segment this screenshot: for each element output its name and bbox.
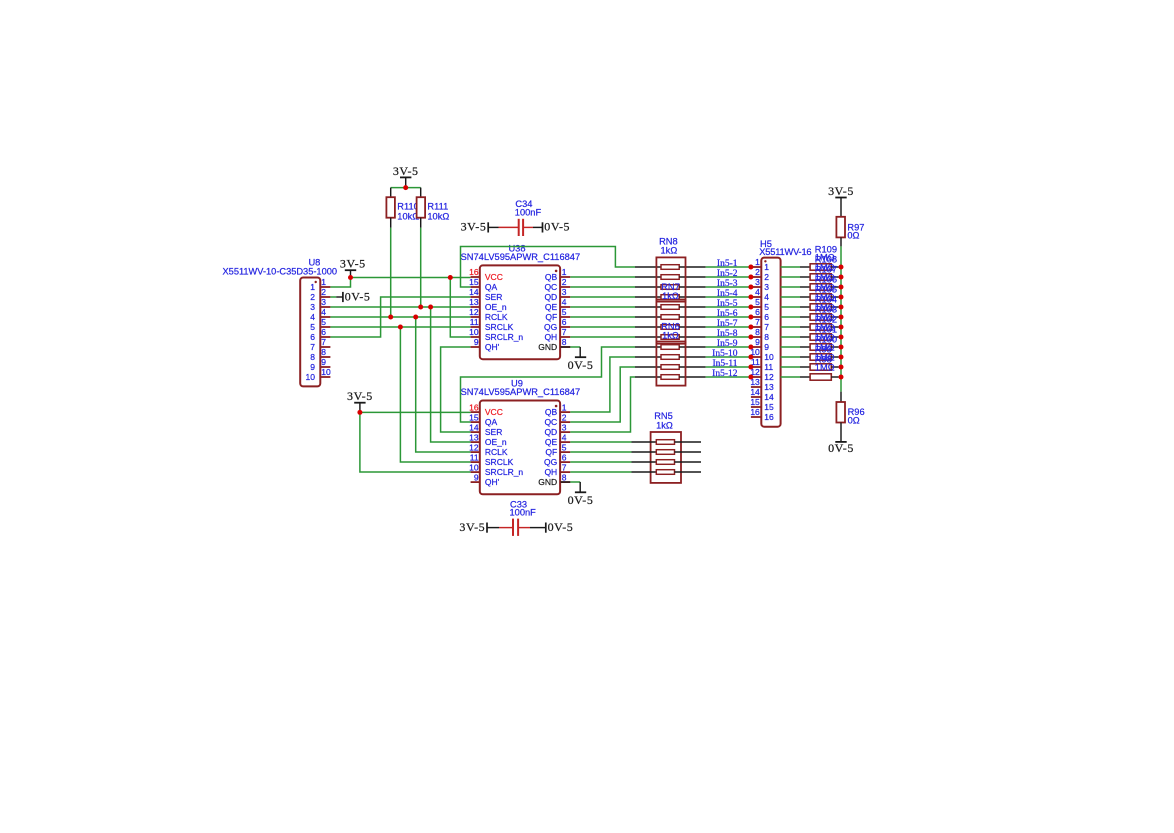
pin 3 QD: [544, 287, 570, 302]
svg-text:6: 6: [562, 317, 567, 327]
pin 12 RCLK: [469, 307, 508, 322]
svg-text:12: 12: [469, 442, 479, 452]
resistor R98 1MΩ: [781, 374, 839, 380]
resistor R105 1MΩ: [781, 304, 839, 310]
pin 3: [320, 306, 330, 308]
resistor R101 1MΩ: [781, 344, 839, 350]
svg-text:13: 13: [764, 382, 774, 392]
pin 7 QH: [544, 462, 570, 477]
wire: [706, 286, 751, 288]
power 0V-5 (right of C34): [543, 220, 571, 234]
svg-text:1kΩ: 1kΩ: [661, 246, 678, 256]
wire: [570, 316, 635, 318]
svg-text:9: 9: [474, 337, 479, 347]
svg-text:In5-11: In5-11: [713, 359, 738, 369]
svg-text:11: 11: [764, 362, 773, 372]
connector H5 X5511WV-16: [750, 239, 811, 427]
junction: [839, 315, 844, 320]
svg-text:9: 9: [764, 342, 769, 352]
svg-text:1: 1: [562, 267, 567, 277]
wire: [706, 316, 751, 318]
svg-text:SER: SER: [485, 292, 502, 302]
svg-text:0V-5: 0V-5: [568, 493, 594, 507]
svg-text:RN5: RN5: [654, 411, 673, 421]
pin 5 QF: [545, 307, 570, 322]
wire: [570, 336, 635, 338]
svg-text:OE_n: OE_n: [485, 437, 507, 447]
resistor network RN7 1kΩ: [656, 282, 685, 344]
wire: [416, 317, 471, 452]
resistor R110: [386, 188, 419, 228]
svg-text:1: 1: [321, 277, 326, 287]
resistor R108 1MΩ: [781, 274, 839, 280]
resistor network RN5 element 1: [632, 440, 702, 445]
pin 3 QD: [544, 422, 570, 437]
wire: [706, 336, 751, 338]
wire: [570, 377, 635, 432]
pin 10 SRCLR_n: [469, 462, 523, 477]
svg-text:QD: QD: [544, 292, 557, 302]
wire: [570, 367, 635, 422]
svg-text:0V-5: 0V-5: [345, 289, 371, 303]
pin 2: [320, 296, 330, 298]
resistor network element row 4: [635, 295, 706, 300]
wire: [570, 326, 635, 328]
svg-text:QF: QF: [545, 312, 557, 322]
svg-text:6: 6: [764, 312, 769, 322]
svg-text:14: 14: [469, 422, 479, 432]
wire: [330, 296, 336, 298]
svg-text:3: 3: [562, 287, 567, 297]
svg-text:16: 16: [469, 402, 479, 412]
svg-text:14: 14: [764, 392, 774, 402]
svg-text:13: 13: [469, 432, 479, 442]
pin 6: [751, 316, 761, 318]
pin 5: [320, 326, 330, 328]
resistor network element row 11: [635, 365, 706, 370]
svg-text:1kΩ: 1kΩ: [662, 291, 679, 301]
wire: [360, 411, 471, 413]
svg-text:3V-5: 3V-5: [459, 520, 485, 534]
svg-text:1: 1: [562, 402, 567, 412]
svg-text:2: 2: [562, 277, 567, 287]
resistor R100 1MΩ: [781, 354, 839, 360]
svg-text:12: 12: [764, 372, 774, 382]
svg-text:1: 1: [764, 262, 769, 272]
pin 10: [320, 376, 330, 378]
wire: [570, 346, 580, 348]
pin 8: [320, 356, 330, 358]
wire: [706, 356, 751, 358]
svg-text:7: 7: [755, 317, 760, 327]
svg-text:8: 8: [755, 327, 760, 337]
pin 9: [751, 346, 761, 348]
pin 13 OE_n: [469, 432, 507, 447]
svg-text:0Ω: 0Ω: [847, 230, 859, 240]
svg-text:5: 5: [562, 307, 567, 317]
resistor R102 1MΩ: [781, 334, 839, 340]
svg-text:0V-5: 0V-5: [548, 520, 574, 534]
svg-text:R111: R111: [427, 202, 448, 212]
wire: [570, 286, 635, 288]
pin 7: [751, 326, 761, 328]
pin 4: [320, 316, 330, 318]
junction: [839, 295, 844, 300]
wire: [570, 451, 631, 453]
junction: [748, 265, 753, 270]
junction: [413, 315, 418, 320]
svg-text:1kΩ: 1kΩ: [656, 421, 673, 431]
svg-text:QE: QE: [545, 302, 558, 312]
wire: [570, 296, 635, 298]
svg-text:QA: QA: [485, 282, 498, 292]
svg-text:6: 6: [755, 307, 760, 317]
svg-text:QH': QH': [485, 477, 500, 487]
svg-text:SRCLR_n: SRCLR_n: [485, 467, 524, 477]
svg-text:VCC: VCC: [485, 272, 503, 282]
power 3V-5 (above R97): [828, 184, 854, 198]
pin 15 QA: [469, 412, 497, 427]
wire: [461, 347, 636, 422]
svg-text:QF: QF: [545, 447, 557, 457]
wire: [570, 357, 635, 412]
resistor R109 1MΩ: [781, 264, 839, 270]
pin 1 QB: [545, 402, 570, 417]
svg-text:10: 10: [469, 327, 479, 337]
resistor network RN5 element 4: [632, 470, 702, 475]
wire: [530, 527, 546, 529]
svg-text:4: 4: [755, 287, 760, 297]
svg-text:5: 5: [562, 442, 567, 452]
svg-text:VCC: VCC: [485, 407, 503, 417]
pin 15 QA: [469, 277, 497, 292]
wire: [420, 228, 422, 307]
svg-text:In5-3: In5-3: [717, 279, 738, 289]
svg-text:5: 5: [764, 302, 769, 312]
wire: [431, 307, 471, 442]
pin 8 GND: [538, 337, 570, 352]
wire: [391, 187, 421, 189]
svg-text:7: 7: [562, 462, 567, 472]
pin 14 SER: [469, 287, 502, 302]
junction: [748, 285, 753, 290]
svg-text:3: 3: [562, 422, 567, 432]
svg-text:13: 13: [469, 297, 479, 307]
svg-text:4: 4: [764, 292, 769, 302]
wire: [533, 226, 543, 228]
pin 11 SRCLK: [470, 317, 514, 332]
junction: [839, 355, 844, 360]
svg-text:In5-4: In5-4: [717, 289, 738, 299]
junction: [839, 305, 844, 310]
IC U38 SN74LV595APWR_C116847: [461, 244, 581, 360]
svg-text:3V-5: 3V-5: [393, 164, 419, 178]
wire: [487, 527, 499, 529]
svg-text:8: 8: [562, 472, 567, 482]
svg-text:1: 1: [755, 257, 760, 267]
svg-text:QE: QE: [545, 437, 558, 447]
wire: [706, 326, 751, 328]
capacitor C34: [499, 199, 542, 236]
pin 5 QF: [545, 442, 570, 457]
wire: [561, 346, 571, 348]
junction: [748, 325, 753, 330]
svg-text:5: 5: [321, 317, 326, 327]
wire: [360, 412, 471, 472]
svg-text:In5-7: In5-7: [717, 319, 738, 329]
svg-text:9: 9: [755, 337, 760, 347]
junction: [748, 355, 753, 360]
svg-text:X5511WV-16: X5511WV-16: [759, 247, 811, 257]
svg-text:In5-6: In5-6: [717, 309, 738, 319]
svg-text:5: 5: [310, 322, 315, 332]
junction: [357, 410, 362, 415]
svg-text:2: 2: [321, 287, 326, 297]
pin 9 QH': [471, 472, 500, 487]
pin 12: [751, 376, 761, 378]
junction: [748, 375, 753, 380]
wire: [570, 461, 631, 463]
resistor network element row 12: [635, 375, 706, 380]
wire: [840, 246, 842, 391]
power 0V-5 (below U38 GND): [568, 347, 594, 372]
pin 4 QE: [545, 432, 570, 447]
junction: [839, 335, 844, 340]
power 3V-5 (top, above R110/R111): [393, 164, 419, 188]
svg-text:3V-5: 3V-5: [347, 389, 373, 403]
wire: [570, 276, 635, 278]
svg-text:11: 11: [470, 317, 479, 327]
resistor network element row 10: [635, 355, 706, 360]
pin 8: [751, 336, 761, 338]
pin 16 VCC: [469, 402, 503, 417]
resistor network element row 5: [635, 305, 706, 310]
svg-text:4: 4: [321, 307, 326, 317]
wire: [390, 228, 392, 317]
wire: [706, 276, 751, 278]
svg-text:GND: GND: [538, 477, 557, 487]
svg-text:X5511WV-10-C35D35-1000: X5511WV-10-C35D35-1000: [223, 267, 338, 277]
svg-text:SRCLK: SRCLK: [485, 322, 514, 332]
pin 6 QG: [544, 452, 570, 467]
svg-text:4: 4: [562, 297, 567, 307]
svg-text:3: 3: [764, 282, 769, 292]
wire: [570, 441, 631, 443]
power 0V-5 (right of C33): [546, 520, 574, 534]
svg-text:3: 3: [310, 302, 315, 312]
svg-text:In5-5: In5-5: [717, 299, 738, 309]
svg-text:QG: QG: [544, 322, 557, 332]
svg-text:RCLK: RCLK: [485, 312, 508, 322]
junction: [748, 365, 753, 370]
IC U9 SN74LV595APWR_C116847: [461, 379, 581, 495]
svg-text:6: 6: [321, 327, 326, 337]
svg-text:QG: QG: [544, 457, 557, 467]
svg-text:In5-2: In5-2: [717, 269, 738, 279]
svg-text:In5-9: In5-9: [717, 339, 738, 349]
junction: [839, 265, 844, 270]
svg-text:1: 1: [310, 282, 315, 292]
svg-text:16: 16: [750, 407, 760, 417]
svg-text:OE_n: OE_n: [485, 302, 507, 312]
wire: [706, 266, 751, 268]
svg-text:3: 3: [755, 277, 760, 287]
svg-text:In5-12: In5-12: [712, 369, 738, 379]
svg-text:R110: R110: [397, 202, 419, 212]
svg-text:10: 10: [764, 352, 774, 362]
svg-text:2: 2: [755, 267, 760, 277]
wire: [330, 326, 470, 328]
pin 7 QH: [544, 327, 570, 342]
resistor R106 1MΩ: [781, 294, 839, 300]
svg-text:2: 2: [764, 272, 769, 282]
svg-text:0V-5: 0V-5: [544, 220, 570, 234]
pin 8 GND: [538, 472, 570, 487]
svg-text:10: 10: [469, 462, 479, 472]
svg-text:In5-8: In5-8: [717, 329, 738, 339]
resistor network RN5 element 2: [632, 450, 702, 455]
power 3V-5 (left of C34): [461, 220, 489, 234]
svg-text:12: 12: [469, 307, 479, 317]
svg-text:RCLK: RCLK: [485, 447, 508, 457]
power 3V-5 (above U8 pin 1): [340, 257, 366, 278]
junction: [748, 345, 753, 350]
pin 9: [320, 366, 330, 368]
wire: [570, 471, 631, 473]
svg-text:10kΩ: 10kΩ: [427, 211, 449, 221]
resistor network element row 6: [635, 315, 706, 320]
pin 7: [320, 346, 330, 348]
junction: [418, 305, 423, 310]
svg-text:SRCLK: SRCLK: [485, 457, 514, 467]
junction: [398, 325, 403, 330]
resistor network element row 1: [635, 265, 706, 270]
power 3V-5 (left of C33): [459, 520, 487, 534]
svg-text:9: 9: [321, 357, 326, 367]
pin 15: [751, 406, 761, 408]
svg-text:15: 15: [469, 277, 479, 287]
pin 4 QE: [545, 297, 570, 312]
resistor R96 0Ω: [836, 392, 864, 442]
svg-text:8: 8: [562, 337, 567, 347]
svg-text:10: 10: [321, 367, 331, 377]
resistor network RN8 1kΩ: [656, 236, 685, 301]
svg-text:15: 15: [469, 412, 479, 422]
resistor R97 0Ω: [836, 198, 864, 247]
junction: [748, 295, 753, 300]
resistor network RN5 1kΩ: [651, 411, 681, 483]
resistor network element row 8: [635, 335, 706, 340]
svg-text:1kΩ: 1kΩ: [662, 331, 679, 341]
svg-text:4: 4: [310, 312, 315, 322]
resistor network RN5 element 3: [632, 460, 702, 465]
svg-text:0V-5: 0V-5: [568, 358, 594, 372]
wire: [450, 278, 470, 338]
pin 1: [320, 286, 330, 288]
pin 1: [751, 266, 761, 268]
svg-text:QH: QH: [544, 467, 557, 477]
svg-text:7: 7: [310, 342, 315, 352]
power 0V-5 (right of U8 pin 2): [336, 289, 370, 303]
junction: [748, 305, 753, 310]
pin 14 SER: [469, 422, 502, 437]
svg-text:GND: GND: [538, 342, 557, 352]
resistor network element row 7: [635, 325, 706, 330]
resistor network element row 3: [635, 285, 706, 290]
pin 3: [751, 286, 761, 288]
svg-text:14: 14: [469, 287, 479, 297]
wire: [330, 306, 470, 308]
wire: [441, 347, 471, 432]
wire: [706, 366, 751, 368]
wire: [461, 247, 636, 288]
wire: [706, 346, 751, 348]
capacitor C33: [499, 499, 536, 536]
resistor R99 1MΩ: [781, 364, 839, 370]
svg-text:10: 10: [306, 372, 316, 382]
svg-text:16: 16: [764, 412, 774, 422]
svg-text:3V-5: 3V-5: [461, 220, 487, 234]
pin 6: [320, 336, 330, 338]
svg-text:100nF: 100nF: [515, 208, 542, 218]
resistor R103 1MΩ: [781, 324, 839, 330]
svg-text:15: 15: [750, 397, 760, 407]
svg-text:100nF: 100nF: [510, 508, 537, 518]
svg-text:9: 9: [310, 362, 315, 372]
power 3V-5 (left of U9): [347, 389, 373, 412]
svg-text:2: 2: [562, 412, 567, 422]
pin 11: [751, 366, 761, 368]
junction: [428, 305, 433, 310]
svg-text:15: 15: [764, 402, 774, 412]
svg-text:In5-1: In5-1: [717, 259, 738, 269]
junction: [348, 275, 353, 280]
svg-text:In5-10: In5-10: [712, 349, 738, 359]
wire: [570, 481, 580, 483]
junction: [748, 275, 753, 280]
pin 13: [751, 386, 761, 388]
pin 12 RCLK: [469, 442, 508, 457]
svg-text:9: 9: [474, 472, 479, 482]
svg-text:8: 8: [310, 352, 315, 362]
wire: [351, 277, 471, 279]
connector U8 X5511WV-10-C35D35-1000: [223, 258, 338, 387]
svg-text:QA: QA: [485, 417, 498, 427]
pin 10 SRCLR_n: [469, 327, 523, 342]
svg-text:16: 16: [469, 267, 479, 277]
pin 16 VCC: [469, 267, 503, 282]
svg-text:QH': QH': [485, 342, 500, 352]
junction: [839, 275, 844, 280]
pin 11 SRCLK: [470, 452, 514, 467]
svg-text:8: 8: [764, 332, 769, 342]
svg-text:5: 5: [755, 297, 760, 307]
pin 9 QH': [471, 337, 500, 352]
svg-text:QH: QH: [544, 332, 557, 342]
svg-text:1MΩ: 1MΩ: [815, 362, 835, 372]
svg-text:8: 8: [321, 347, 326, 357]
wire: [400, 327, 470, 462]
pin 4: [751, 296, 761, 298]
svg-text:0V-5: 0V-5: [828, 441, 854, 455]
svg-text:SRCLR_n: SRCLR_n: [485, 332, 524, 342]
junction: [403, 185, 408, 190]
resistor R111: [417, 188, 450, 228]
svg-text:11: 11: [470, 452, 479, 462]
junction: [748, 315, 753, 320]
wire: [330, 297, 470, 337]
junction: [839, 325, 844, 330]
